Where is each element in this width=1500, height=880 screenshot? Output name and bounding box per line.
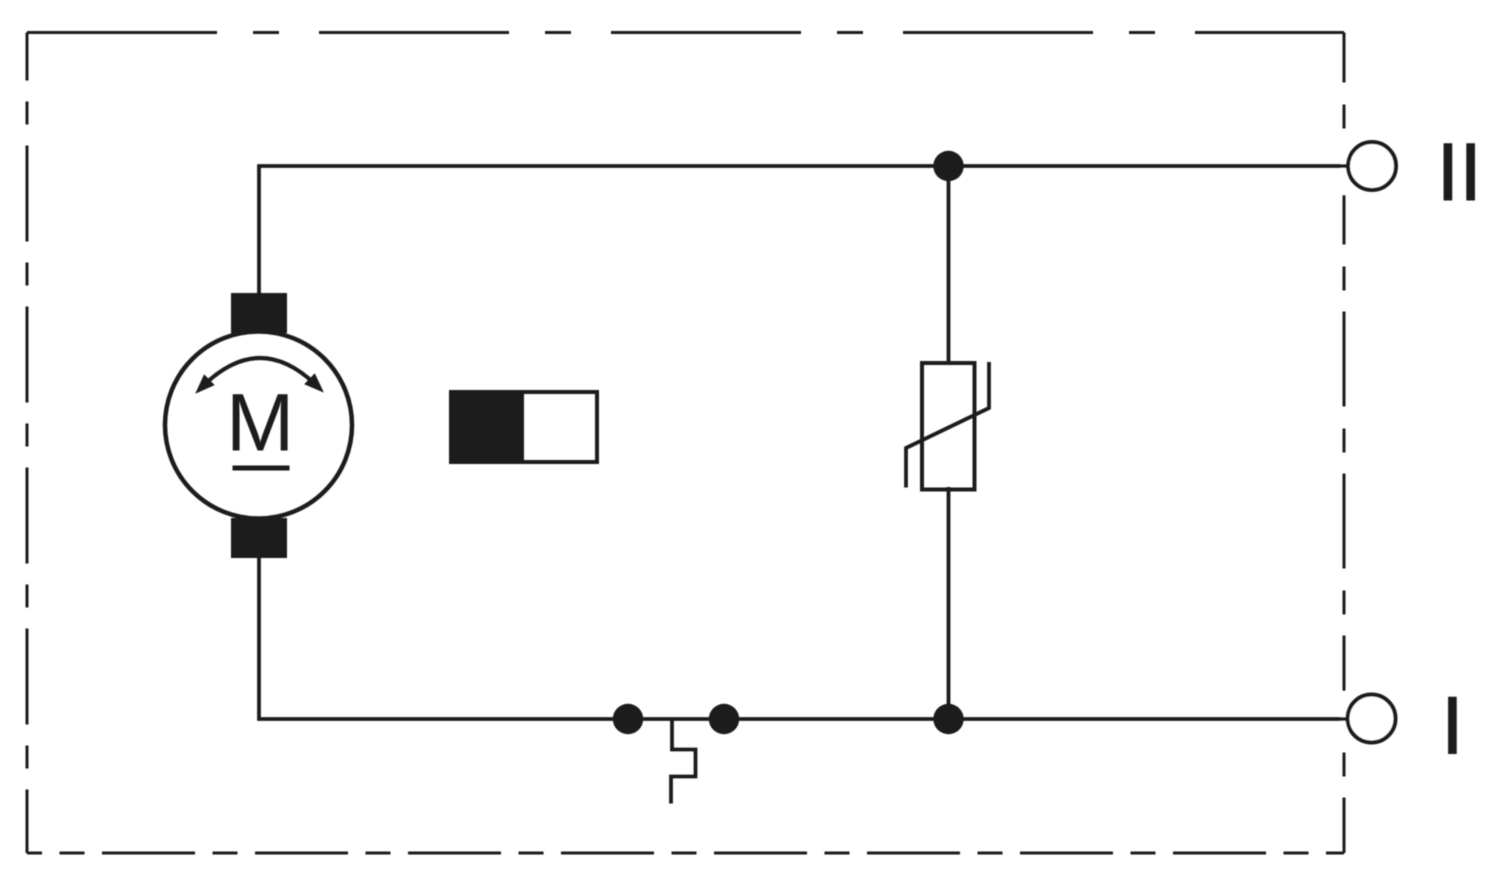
wire: bottom rail to terminal I bbox=[258, 717, 1348, 721]
border gap at terminal I bbox=[1341, 691, 1348, 747]
two-tone block symbol bbox=[451, 392, 597, 462]
junction dot: bottom rail / thermistor bbox=[933, 704, 963, 734]
svg-text:I: I bbox=[1441, 681, 1464, 772]
terminal I circle bbox=[1348, 695, 1396, 743]
junction dot: top rail / thermistor bbox=[933, 151, 963, 181]
border gap at terminal II bbox=[1341, 139, 1348, 195]
wire: thermistor top lead bbox=[947, 166, 951, 365]
wire: top rail to terminal II bbox=[258, 164, 1349, 168]
svg-text:M: M bbox=[226, 378, 294, 469]
motor M1 bbox=[165, 293, 352, 558]
svg-text:II: II bbox=[1437, 127, 1483, 218]
enclosure boundary right (dash-dot) bbox=[1343, 33, 1346, 854]
terminal II circle bbox=[1348, 142, 1396, 190]
switch contact (park position) bbox=[671, 719, 696, 804]
enclosure boundary top (dash-dot) bbox=[27, 31, 1344, 34]
wire: motor bottom lead bbox=[257, 556, 261, 721]
enclosure boundary bottom (dash-dot) bbox=[27, 852, 1344, 855]
wire: thermistor bottom lead bbox=[947, 487, 951, 719]
enclosure boundary left (dash-dot) bbox=[26, 33, 29, 854]
wire: motor top lead bbox=[257, 165, 261, 297]
junction dot: bottom rail right bbox=[709, 704, 739, 734]
thermistor R1 bbox=[906, 362, 989, 490]
junction dot: bottom rail left bbox=[613, 704, 643, 734]
